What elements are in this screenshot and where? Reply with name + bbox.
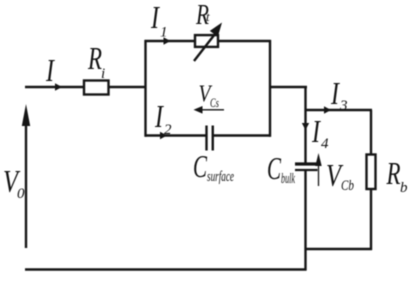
wire: bottom return (25, 268, 307, 270)
label Rt (195, 0, 210, 31)
svg-text:3: 3 (339, 98, 348, 114)
wire: I3 branch horizontal (306, 109, 372, 111)
wire: bottom branch left segment (145, 134, 206, 136)
label Rb (386, 156, 408, 196)
wire: output of parallel block to node (270, 86, 307, 88)
label Cbulk (267, 151, 295, 187)
current arrow I1 (164, 37, 171, 44)
label Csurface (193, 149, 234, 185)
svg-text:I: I (311, 114, 321, 149)
svg-text:t: t (206, 9, 210, 24)
label I3 (330, 76, 347, 114)
svg-text:C: C (267, 151, 282, 186)
wire: node vertical upper (to Cbulk) (304, 87, 306, 163)
svg-text:i: i (101, 66, 105, 82)
label VCb (326, 158, 354, 194)
svg-text:4: 4 (321, 136, 329, 152)
wire: input terminal to resistor Ri (25, 86, 84, 88)
svg-text:C: C (193, 149, 208, 184)
svg-text:Cs: Cs (210, 95, 219, 110)
voltage arrow VCb (315, 153, 321, 186)
wire: node vertical lower (Cbulk to bottom) (304, 170, 306, 271)
capacitor Csurface (207, 126, 213, 151)
current arrow I3 (324, 106, 331, 113)
svg-text:bulk: bulk (281, 171, 295, 187)
svg-text:b: b (400, 180, 408, 196)
wire: right vertical of parallel block (269, 40, 271, 137)
label Ri (87, 41, 105, 82)
label I1 (150, 0, 167, 41)
wire: top branch left segment (145, 40, 196, 42)
svg-text:R: R (87, 41, 102, 76)
svg-text:1: 1 (160, 25, 168, 41)
label VCs (199, 82, 220, 111)
svg-text:0: 0 (17, 186, 25, 202)
wire: bottom branch right segment (213, 134, 271, 136)
svg-text:I: I (150, 0, 160, 35)
current arrow I4 (302, 123, 309, 130)
wire: Rb top vertical (370, 110, 372, 155)
voltage arrow V0 (22, 104, 30, 248)
svg-text:2: 2 (164, 122, 172, 138)
resistor Ri (84, 81, 109, 95)
svg-text:I: I (330, 76, 340, 111)
svg-text:Cb: Cb (341, 178, 354, 194)
wire: Ri to left node of parallel block (108, 86, 147, 88)
label I2 (154, 99, 172, 138)
label V0 (3, 164, 25, 202)
label I4 (311, 114, 329, 152)
wire: Rb bottom vertical (370, 189, 372, 250)
capacitor Cbulk (295, 164, 318, 170)
resistor Rb (367, 155, 376, 190)
voltage arrow VCs (194, 106, 225, 114)
svg-text:R: R (386, 156, 401, 191)
svg-text:surface: surface (207, 169, 234, 185)
current arrow I (55, 83, 62, 90)
wire: Rb bottom horizontal to node (306, 248, 372, 250)
current arrow I2 (160, 132, 167, 139)
wire: left vertical of parallel block (144, 40, 146, 137)
svg-text:I: I (154, 99, 164, 134)
label I (45, 53, 55, 88)
variable resistor Rt (194, 23, 222, 62)
wire: top branch right segment (218, 40, 271, 42)
svg-text:I: I (45, 53, 55, 88)
